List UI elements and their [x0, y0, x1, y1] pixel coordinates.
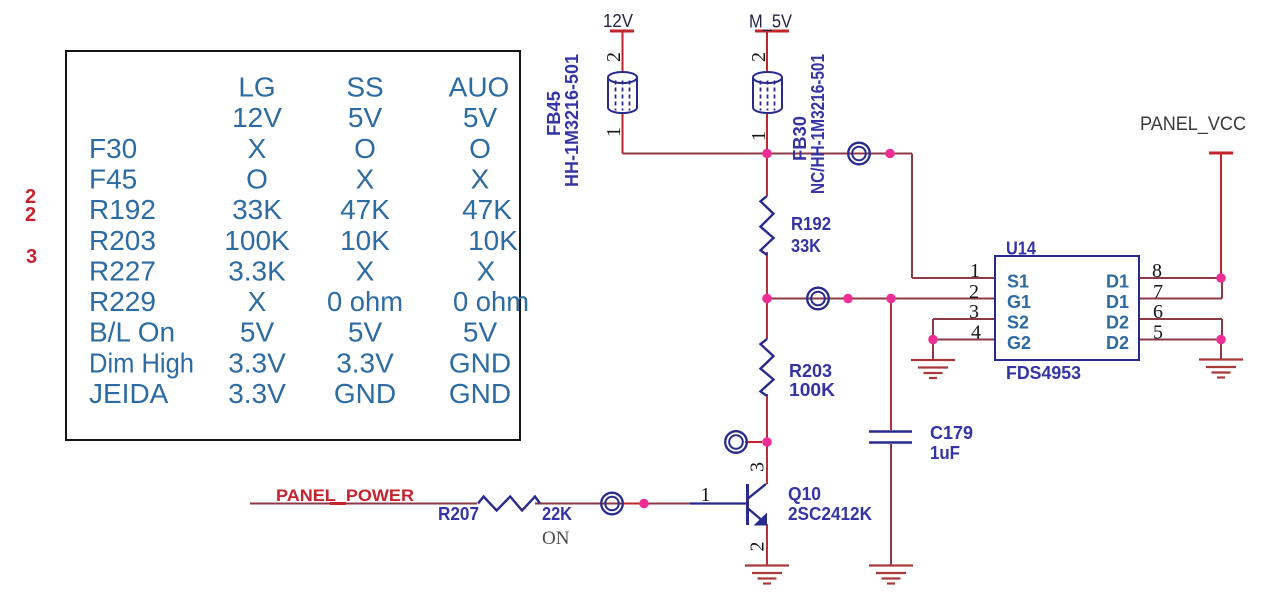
svg-text:2: 2: [603, 52, 625, 62]
svg-text:X: X: [248, 286, 267, 317]
svg-text:3: 3: [26, 246, 37, 268]
svg-text:33K: 33K: [232, 194, 282, 225]
svg-text:FB30: FB30: [790, 116, 810, 161]
svg-text:D1: D1: [1106, 272, 1129, 292]
svg-text:X: X: [471, 163, 490, 194]
svg-text:R227: R227: [89, 255, 156, 286]
svg-text:O: O: [469, 133, 491, 164]
svg-text:R192: R192: [89, 194, 156, 225]
svg-text:X: X: [356, 255, 375, 286]
svg-text:0 ohm: 0 ohm: [327, 286, 403, 317]
svg-text:C179: C179: [930, 423, 973, 443]
svg-text:PANEL_POWER: PANEL_POWER: [276, 486, 414, 505]
svg-text:R207: R207: [438, 504, 479, 524]
svg-text:R229: R229: [89, 286, 156, 317]
svg-text:100K: 100K: [224, 225, 290, 256]
svg-text:3: 3: [969, 301, 979, 323]
svg-text:22K: 22K: [542, 504, 572, 524]
svg-text:D2: D2: [1106, 333, 1129, 353]
svg-text:3.3V: 3.3V: [228, 347, 286, 378]
svg-text:FDS4953: FDS4953: [1006, 363, 1081, 383]
svg-text:5V: 5V: [348, 317, 383, 348]
svg-text:47K: 47K: [462, 194, 512, 225]
svg-text:12V: 12V: [232, 102, 282, 133]
svg-text:U14: U14: [1006, 239, 1036, 259]
svg-text:5V: 5V: [240, 317, 275, 348]
svg-text:R203: R203: [89, 225, 156, 256]
svg-text:S2: S2: [1007, 313, 1029, 333]
svg-text:6: 6: [1153, 301, 1163, 323]
svg-text:D1: D1: [1106, 292, 1129, 312]
svg-text:100K: 100K: [789, 380, 835, 400]
svg-text:1: 1: [701, 484, 711, 506]
svg-text:1: 1: [748, 131, 770, 141]
svg-text:GND: GND: [449, 347, 511, 378]
svg-text:3.3V: 3.3V: [228, 378, 286, 409]
svg-text:G1: G1: [1007, 292, 1031, 312]
svg-text:10K: 10K: [340, 225, 390, 256]
svg-text:5V: 5V: [463, 317, 498, 348]
svg-text:F30: F30: [89, 133, 137, 164]
svg-text:2: 2: [748, 52, 770, 62]
svg-text:O: O: [246, 163, 268, 194]
svg-text:3: 3: [747, 462, 769, 472]
svg-text:47K: 47K: [340, 194, 390, 225]
svg-text:33K: 33K: [791, 236, 821, 256]
svg-text:3.3K: 3.3K: [228, 255, 286, 286]
svg-text:X: X: [356, 163, 375, 194]
svg-text:8: 8: [1152, 260, 1162, 282]
svg-text:O: O: [354, 133, 376, 164]
svg-text:GND: GND: [334, 378, 396, 409]
svg-text:D2: D2: [1106, 313, 1129, 333]
svg-text:NC/HH-1M3216-501: NC/HH-1M3216-501: [808, 54, 828, 194]
svg-text:S1: S1: [1007, 272, 1029, 292]
svg-text:5V: 5V: [463, 102, 498, 133]
svg-text:2: 2: [969, 281, 979, 303]
svg-text:1uF: 1uF: [930, 443, 960, 463]
svg-text:HH-1M3216-501: HH-1M3216-501: [562, 54, 582, 187]
svg-text:3.3V: 3.3V: [336, 347, 394, 378]
svg-text:M_5V: M_5V: [749, 12, 792, 33]
svg-text:ON: ON: [542, 528, 570, 549]
svg-text:F45: F45: [89, 163, 137, 194]
svg-text:X: X: [248, 133, 267, 164]
svg-text:FB45: FB45: [544, 91, 564, 136]
svg-text:JEIDA: JEIDA: [89, 378, 169, 409]
svg-text:Dim High: Dim High: [89, 347, 194, 378]
svg-text:R192: R192: [791, 214, 831, 234]
svg-text:10K: 10K: [468, 225, 518, 256]
svg-text:Q10: Q10: [788, 484, 821, 504]
svg-text:7: 7: [1153, 281, 1163, 303]
svg-text:4: 4: [971, 322, 981, 344]
svg-text:X: X: [477, 255, 496, 286]
svg-text:5: 5: [1153, 322, 1163, 344]
svg-text:B/L On: B/L On: [89, 317, 175, 348]
svg-text:GND: GND: [449, 378, 511, 409]
svg-text:5V: 5V: [348, 102, 383, 133]
svg-text:2: 2: [747, 542, 769, 552]
svg-text:R203: R203: [789, 361, 832, 381]
svg-text:12V: 12V: [603, 11, 633, 31]
svg-text:2: 2: [25, 204, 36, 226]
svg-text:AUO: AUO: [449, 72, 510, 103]
svg-text:LG: LG: [238, 72, 275, 103]
svg-text:SS: SS: [346, 72, 383, 103]
svg-text:0 ohm: 0 ohm: [453, 286, 529, 317]
svg-text:1: 1: [970, 260, 980, 282]
svg-text:2SC2412K: 2SC2412K: [788, 504, 872, 524]
svg-text:PANEL_VCC: PANEL_VCC: [1140, 114, 1246, 135]
svg-text:G2: G2: [1007, 333, 1031, 353]
svg-text:1: 1: [603, 127, 625, 137]
